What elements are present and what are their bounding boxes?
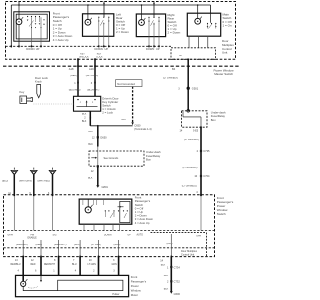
svg-text:(BLU): (BLU) [74, 244, 80, 246]
svg-text:(LT GRN/BLU): (LT GRN/BLU) [182, 185, 197, 187]
svg-text:(LT GRN): (LT GRN) [91, 244, 101, 246]
svg-text:Control Unit: Control Unit [181, 254, 195, 257]
svg-text:(LT GRN/BLK): (LT GRN/BLK) [184, 139, 199, 141]
svg-text:A18: A18 [69, 67, 74, 71]
svg-text:Knob: Knob [35, 80, 42, 84]
svg-text:B4: B4 [172, 67, 176, 71]
svg-text:2 = Down: 2 = Down [116, 30, 129, 34]
svg-text:Pulser: Pulser [112, 293, 119, 296]
svg-text:D650: D650 [100, 135, 107, 139]
svg-text:RED: RED [31, 264, 36, 266]
svg-text:AUTO: AUTO [137, 233, 144, 236]
svg-text:UP: UP [36, 47, 40, 51]
svg-text:(LT GRN/BLK): (LT GRN/BLK) [163, 78, 178, 80]
svg-text:BLK: BLK [161, 265, 166, 267]
svg-text:BLU: BLU [72, 264, 77, 266]
svg-text:Not Grounded: Not Grounded [117, 82, 135, 86]
svg-text:C735: C735 [203, 149, 210, 153]
svg-text:Unit: Unit [222, 51, 228, 55]
svg-text:9 E5: 9 E5 [193, 130, 199, 133]
svg-text:UP: UP [179, 55, 183, 57]
svg-text:DOWN: DOWN [95, 47, 103, 51]
svg-text:C650: C650 [134, 124, 141, 128]
svg-text:GRN: GRN [112, 264, 117, 266]
svg-text:4 = Auto Up: 4 = Auto Up [135, 221, 150, 225]
svg-text:BLK: BLK [82, 114, 87, 116]
svg-text:2 = Down: 2 = Down [168, 31, 181, 35]
svg-text:UP: UP [156, 47, 160, 51]
svg-text:KEY: KEY [97, 54, 102, 56]
svg-text:BLK: BLK [122, 119, 127, 121]
svg-text:G501: G501 [192, 87, 199, 91]
svg-text:2 = Lock: 2 = Lock [102, 111, 113, 115]
svg-text:G500: G500 [174, 292, 181, 296]
svg-text:(RED): (RED) [70, 75, 77, 77]
svg-text:Front: Front [131, 275, 138, 279]
svg-text:(RED/WHT): (RED/WHT) [54, 244, 67, 246]
svg-text:C704: C704 [203, 174, 210, 178]
svg-text:UP: UP [128, 234, 132, 236]
svg-text:ENABLE: ENABLE [28, 237, 38, 240]
svg-text:C732: C732 [174, 280, 181, 284]
svg-text:See Grounds: See Grounds [104, 157, 119, 160]
svg-text:C734: C734 [174, 265, 181, 269]
svg-text:Key: Key [20, 90, 25, 94]
svg-text:DOWN: DOWN [104, 234, 112, 236]
svg-text:RED/BLU: RED/BLU [11, 264, 21, 266]
svg-text:BLK: BLK [82, 121, 87, 123]
svg-text:UNLOCK: UNLOCK [79, 56, 89, 58]
svg-text:(LT GRN/BLK): (LT GRN/BLK) [183, 167, 198, 169]
svg-text:BLK: BLK [88, 178, 93, 180]
svg-text:BLK: BLK [88, 131, 93, 133]
svg-text:DOWN: DOWN [26, 47, 34, 51]
svg-text:Passenger's: Passenger's [131, 280, 147, 284]
svg-text:A19: A19 [89, 67, 94, 71]
svg-text:4 = Auto Up: 4 = Auto Up [53, 38, 69, 42]
svg-text:BLK: BLK [164, 289, 169, 291]
svg-text:DOWN: DOWN [146, 47, 154, 51]
svg-text:KEY: KEY [80, 54, 85, 56]
svg-text:SIG: SIG [53, 234, 57, 236]
svg-text:Power: Power [131, 284, 139, 288]
svg-text:LT GRN: LT GRN [88, 264, 97, 266]
svg-text:UPR: UPR [196, 235, 201, 237]
svg-text:Switch: Switch [217, 212, 226, 216]
svg-text:BLK: BLK [88, 144, 93, 146]
svg-text:RED/WHT: RED/WHT [44, 264, 55, 266]
svg-text:Box: Box [146, 157, 151, 161]
svg-text:Master Switch: Master Switch [214, 72, 233, 76]
svg-text:(BLU/WHT): (BLU/WHT) [87, 90, 99, 92]
svg-text:UP: UP [105, 47, 109, 51]
svg-text:(BLU): (BLU) [2, 180, 8, 182]
svg-text:G801: G801 [102, 185, 109, 189]
svg-text:(WHT/RED): (WHT/RED) [86, 75, 99, 77]
svg-text:(WHT/RED): (WHT/RED) [38, 180, 51, 182]
svg-text:LOCK: LOCK [96, 56, 103, 58]
svg-text:Box: Box [211, 118, 216, 122]
svg-text:(Terminals 1-4): (Terminals 1-4) [134, 127, 151, 131]
svg-text:(WHT/GRN): (WHT/GRN) [19, 180, 32, 182]
svg-text:Motor: Motor [131, 293, 138, 297]
svg-text:(BLK): (BLK) [167, 243, 173, 245]
svg-text:(GRN): (GRN) [114, 244, 121, 246]
svg-text:(RED/BLU): (RED/BLU) [16, 244, 28, 246]
svg-text:UP/R: UP/R [8, 234, 14, 236]
svg-text:Window: Window [131, 289, 142, 293]
svg-text:1 = On: 1 = On [223, 23, 232, 27]
svg-text:BLK: BLK [164, 275, 169, 277]
svg-text:(BLU/RED): (BLU/RED) [69, 90, 81, 92]
